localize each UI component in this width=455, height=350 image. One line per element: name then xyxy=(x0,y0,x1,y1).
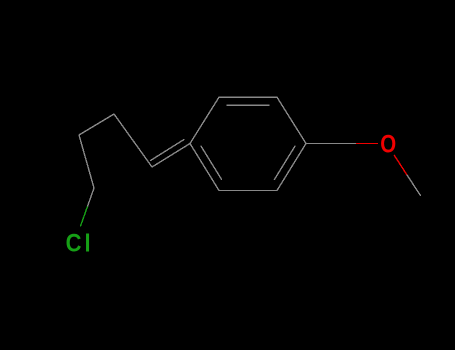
ring inner double lower-right xyxy=(274,146,295,179)
ring edge R-BR xyxy=(277,144,306,191)
svg-text:l: l xyxy=(85,229,91,257)
vinyl/chain bonds xyxy=(79,114,190,207)
bond ring-CH (seg1) xyxy=(152,144,190,168)
svg-text:C: C xyxy=(66,229,82,257)
svg-text:O: O xyxy=(380,129,396,157)
benzene ring C1 xyxy=(190,97,306,190)
ring inner double lower-left xyxy=(201,146,222,179)
bond CH=CH (seg2) xyxy=(114,114,152,167)
bond O-CH3 gray half xyxy=(407,175,421,196)
ring edge TL-TR xyxy=(219,96,277,98)
ring edge BR-BL xyxy=(219,190,277,192)
bond CH2 (seg4) xyxy=(79,135,94,188)
bond CH2 (seg3) xyxy=(79,114,114,135)
ring edge TR-R xyxy=(277,97,306,143)
bond C-Cl gray half xyxy=(87,188,94,207)
bond ring-O gray half xyxy=(306,143,357,145)
bond ring-O red half xyxy=(357,143,378,145)
ring edge BL-L xyxy=(190,144,219,191)
bond C-Cl green half xyxy=(81,207,88,226)
ring edge L-TL xyxy=(190,97,219,143)
ring inner double top xyxy=(227,104,269,106)
bond O-CH3 red half xyxy=(394,155,407,175)
double bond twin of seg1 xyxy=(151,140,185,161)
